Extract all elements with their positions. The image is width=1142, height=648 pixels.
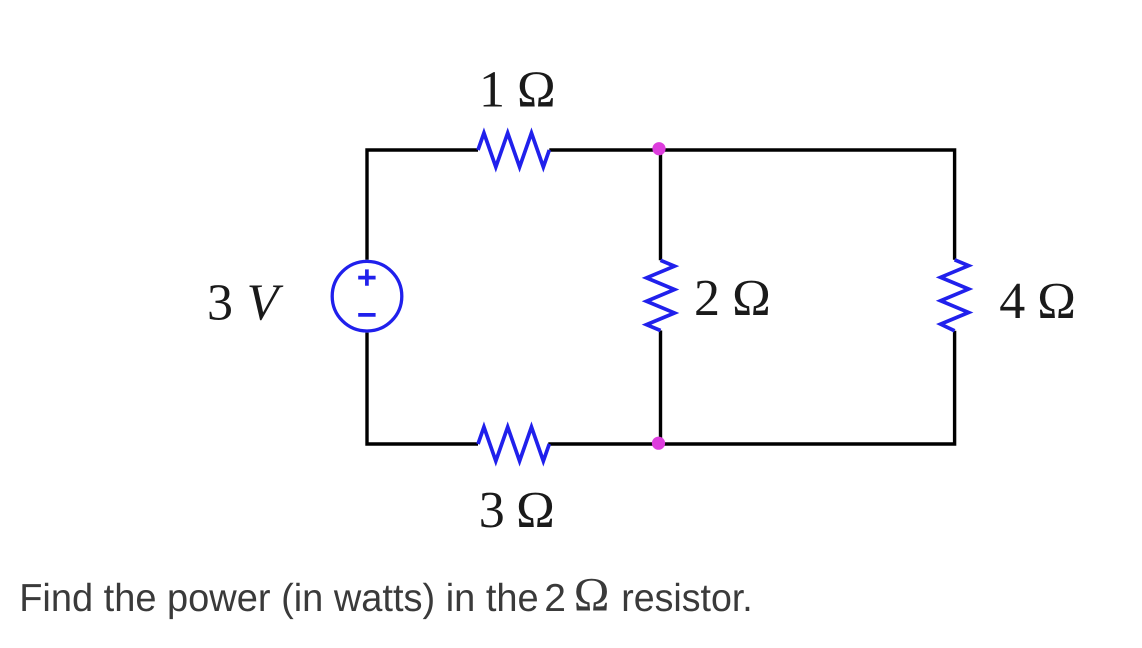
label 2 ohm (694, 270, 771, 327)
resistor R1 1ohm (top) (478, 133, 549, 167)
label 3 V (source value) (207, 275, 284, 332)
svg-text:Find the power (in watts) in t: Find the power (in watts) in the (19, 577, 539, 620)
svg-text:resistor.: resistor. (621, 577, 752, 620)
svg-text:3: 3 (479, 482, 505, 539)
wire: source bottom to bottom-left corner (367, 333, 478, 444)
wire: top-right run and right branch upper (549, 150, 954, 260)
node dot top (junction) (652, 142, 665, 155)
svg-text:Ω: Ω (574, 568, 610, 621)
resistor R4 4ohm (right vertical) (941, 260, 969, 331)
svg-text:2: 2 (694, 270, 720, 327)
wire: top-left corner to source top (367, 150, 478, 260)
svg-text:Ω: Ω (517, 62, 556, 119)
label 3 ohm (479, 482, 555, 539)
svg-text:1: 1 (479, 62, 505, 119)
node dot bottom (junction) (652, 437, 665, 450)
svg-text:Ω: Ω (732, 270, 771, 327)
svg-text:3: 3 (207, 275, 233, 332)
svg-text:Ω: Ω (1037, 273, 1076, 330)
resistor R2 2ohm (middle vertical) (647, 260, 675, 330)
voltage source minus sign (358, 313, 375, 317)
wire: middle branch lower (659, 331, 662, 445)
svg-text:V: V (247, 275, 284, 332)
svg-text:2: 2 (544, 577, 566, 620)
wire: right branch lower and bottom-right run (548, 331, 954, 444)
svg-text:4: 4 (999, 273, 1025, 330)
label 1 ohm (479, 62, 556, 119)
label 4 ohm (999, 273, 1076, 330)
resistor R3 3ohm (bottom) (478, 427, 549, 461)
voltage source plus sign (358, 269, 375, 285)
svg-text:Ω: Ω (516, 482, 555, 539)
wire: middle branch upper (659, 150, 662, 260)
voltage source V1 (3 V) circle (332, 261, 402, 331)
caption: question text (19, 568, 752, 621)
